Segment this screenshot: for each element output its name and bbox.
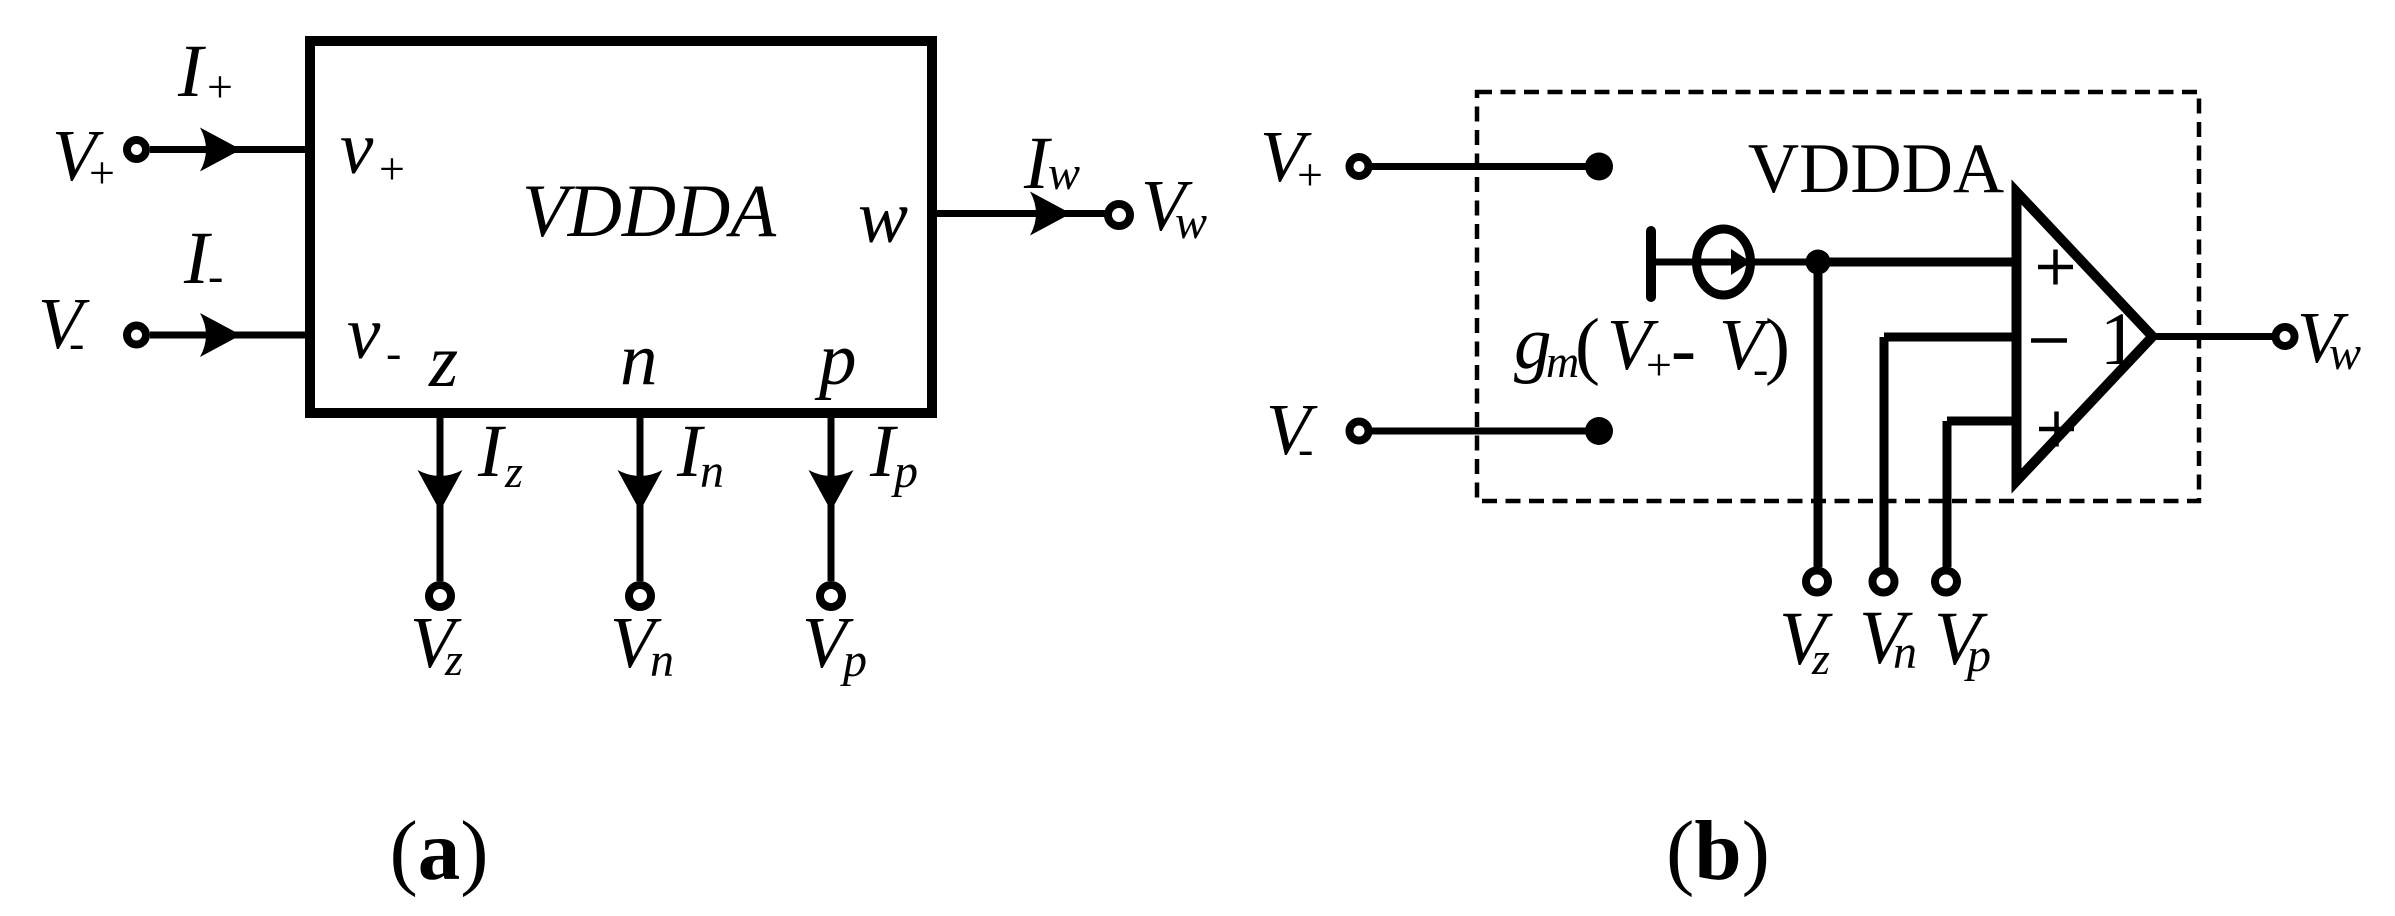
terminal Vn <box>629 585 651 607</box>
node dot V- <box>1585 417 1613 445</box>
buffer plus (upper) <box>2038 265 2073 270</box>
svg-text:z: z <box>444 634 463 685</box>
terminal Vw (b) <box>2276 327 2295 346</box>
wire V- (b) <box>1372 428 1599 435</box>
arrowhead In <box>618 470 663 511</box>
svg-text:v: v <box>347 292 381 375</box>
arrowhead Iw <box>1030 192 1071 236</box>
wire node to buffer + <box>1818 258 2021 267</box>
terminal Vw (a) <box>1108 204 1130 226</box>
current source G1 bar <box>1646 231 1656 297</box>
terminal V- (b) <box>1350 422 1369 441</box>
svg-text:z: z <box>1811 633 1830 684</box>
wire source to node <box>1750 259 1818 266</box>
svg-text:(: ( <box>1575 304 1600 387</box>
wire V+ to v+ <box>150 146 307 153</box>
svg-text:n: n <box>1893 626 1917 679</box>
wire plus2 input vertical to Vp <box>1943 421 1952 567</box>
svg-text:+: + <box>379 143 405 194</box>
wire w to Vw <box>937 210 1107 217</box>
wire node z down to Vz <box>1814 262 1823 567</box>
svg-text:-: - <box>69 317 84 368</box>
svg-text:-: - <box>1671 308 1696 391</box>
svg-text:p: p <box>891 445 918 498</box>
buffer minus <box>2031 338 2067 343</box>
wire plus2 input horizontal <box>1947 417 2021 426</box>
svg-text:w: w <box>2329 327 2361 380</box>
svg-text:w: w <box>1048 147 1080 200</box>
wire minus input vertical to Vn <box>1880 337 1889 567</box>
current source G1 circle <box>1697 229 1751 295</box>
terminal Vp (b) <box>1935 571 1957 593</box>
wire V+ (b) <box>1372 163 1599 170</box>
svg-text:v: v <box>340 107 374 190</box>
svg-text:n: n <box>650 634 674 687</box>
wire buffer output <box>2156 333 2272 340</box>
svg-text:): ) <box>1765 304 1790 387</box>
svg-text:z: z <box>428 320 458 403</box>
wire V- to v- <box>150 332 307 339</box>
terminal V- <box>127 326 146 345</box>
svg-text:n: n <box>700 445 724 498</box>
svg-text:p: p <box>1964 629 1991 682</box>
svg-text:p: p <box>840 634 867 687</box>
svg-text:I: I <box>177 30 206 113</box>
svg-text:I: I <box>477 410 506 493</box>
block U1 VDDDA body <box>310 41 932 413</box>
svg-text:+: + <box>207 61 233 112</box>
wire bar to source <box>1651 259 1695 266</box>
svg-text:VDDDA: VDDDA <box>1748 130 2004 208</box>
arrowhead I+ <box>200 128 241 172</box>
svg-text:w: w <box>1175 196 1207 249</box>
current source arrow <box>1700 259 1735 266</box>
svg-text:+: + <box>89 147 115 198</box>
svg-text:1: 1 <box>2100 298 2138 381</box>
svg-text:+: + <box>1646 339 1672 390</box>
terminal Vp <box>820 585 842 607</box>
svg-text:+: + <box>1297 149 1323 200</box>
terminal V+ (b) <box>1350 157 1369 176</box>
wire p to Vp <box>828 418 835 581</box>
arrowhead I- <box>200 313 241 357</box>
dashed box <box>1477 92 2199 501</box>
svg-text:-: - <box>208 250 223 301</box>
node dot z <box>1806 250 1831 275</box>
svg-text:VDDDA: VDDDA <box>522 170 777 253</box>
buffer plus (lower) <box>2039 427 2074 432</box>
terminal Vn (b) <box>1873 571 1895 593</box>
svg-text:n: n <box>620 318 658 401</box>
arrowhead Ip <box>809 470 854 511</box>
terminal Vz <box>429 585 451 607</box>
svg-text:(a): (a) <box>389 804 488 898</box>
terminal V+ <box>127 140 146 159</box>
buffer U2 triangle <box>2017 192 2153 481</box>
wire n to Vn <box>637 418 644 581</box>
wire z to Vz <box>437 418 444 581</box>
svg-text:w: w <box>858 176 908 259</box>
svg-text:-: - <box>1298 423 1313 474</box>
wire minus input horizontal <box>1884 333 2021 342</box>
node dot V+ <box>1585 153 1613 181</box>
terminal Vz (b) <box>1806 571 1828 593</box>
svg-text:z: z <box>504 446 523 497</box>
svg-text:-: - <box>386 327 401 378</box>
svg-text:(b): (b) <box>1666 804 1770 898</box>
svg-text:p: p <box>814 318 857 401</box>
arrowhead Iz <box>418 470 463 511</box>
